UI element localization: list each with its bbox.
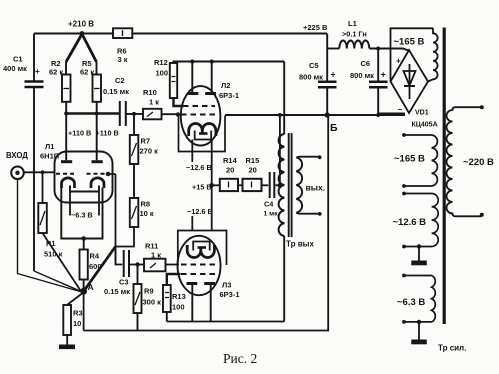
resistor R9 [134, 265, 162, 331]
svg-text:~220 В: ~220 В [463, 157, 494, 168]
resistor R5 [80, 59, 101, 102]
wire anode L2 to primary top [283, 62, 285, 135]
svg-text:R8: R8 [141, 200, 151, 209]
svg-text:R15: R15 [246, 156, 260, 165]
node B [325, 112, 338, 134]
svg-text:+: + [331, 70, 336, 80]
resistor R1 [38, 170, 62, 258]
svg-text:100: 100 [156, 69, 169, 78]
label +225 V [303, 23, 328, 32]
svg-text:1 к: 1 к [151, 251, 161, 260]
svg-text:VD1: VD1 [415, 110, 429, 117]
svg-text:62 к: 62 к [49, 68, 63, 77]
transformer winding 220V [447, 105, 495, 217]
resistor R3 [63, 294, 82, 336]
tube L3 6R3-1 envelope [178, 236, 240, 299]
wire bottom border [84, 115, 329, 331]
svg-text:3 к: 3 к [118, 55, 128, 64]
svg-text:400 мк: 400 мк [3, 64, 27, 73]
tube L3 cathode [187, 245, 214, 258]
svg-text:+225 В: +225 В [303, 23, 328, 32]
svg-text:>0.1 Гн: >0.1 Гн [342, 30, 367, 39]
wire node A to C3 [84, 247, 123, 292]
resistor R7 [130, 112, 158, 164]
wire L3 cathode to +15V node [211, 185, 213, 230]
tube L3 heater [193, 242, 210, 251]
resistor R6 [113, 28, 132, 64]
svg-text:−: − [398, 105, 403, 114]
wire anode rail L2 [174, 60, 285, 64]
svg-text:−12.6 В: −12.6 В [186, 163, 212, 172]
svg-text:+: + [396, 57, 401, 66]
tube L2 grid2 dashed [176, 112, 215, 116]
transformer winding 165V lower [394, 133, 437, 188]
tube L2 heater stub -12.6V [186, 140, 212, 173]
ground tap 6.3V [411, 320, 427, 345]
tube L3 anode pins [187, 284, 216, 322]
wire input shield to node A [18, 179, 81, 291]
svg-text:R14: R14 [223, 156, 238, 165]
node grid L1 right [106, 172, 116, 265]
resistor R15 [238, 156, 262, 191]
caption Ris 2 [223, 351, 257, 366]
tube L1 cathode right [91, 178, 104, 188]
svg-text:КЦ405А: КЦ405А [412, 122, 438, 129]
tube L2 6R3-1 envelope [181, 81, 239, 146]
transformer Tr vykh core [289, 133, 292, 237]
capacitor C5 [299, 34, 337, 116]
svg-text:Л1: Л1 [45, 142, 54, 151]
svg-text:~6.3 В: ~6.3 В [397, 297, 425, 308]
node A [80, 280, 93, 295]
transformer winding 165V upper [394, 28, 438, 81]
svg-text:R4: R4 [90, 252, 100, 261]
svg-text:Л3: Л3 [222, 281, 231, 290]
transformer winding 6.3V [397, 274, 435, 324]
resistor R4 [80, 239, 102, 280]
svg-text:~12.6 В: ~12.6 В [393, 217, 427, 228]
svg-text:Тр вых: Тр вых [286, 240, 314, 249]
tube L1 anode right [92, 114, 103, 162]
svg-text:+: + [35, 67, 40, 76]
svg-text:800 мк: 800 мк [299, 73, 323, 82]
label Tr vykh [286, 240, 314, 249]
svg-text:+210 В: +210 В [68, 20, 94, 29]
box rectifier winding [391, 28, 434, 81]
wire L1 cathode frame [61, 188, 102, 241]
resistor R11 [144, 242, 179, 272]
tube L3 grid2 dashed [181, 273, 215, 275]
rectifier VD1 bridge [378, 50, 428, 114]
svg-text:С4: С4 [264, 200, 274, 209]
svg-text:1 мк: 1 мк [264, 211, 279, 218]
transformer Tr sil core [443, 28, 446, 325]
resistor R14 [212, 156, 238, 191]
svg-text:0.15 мк: 0.15 мк [104, 287, 130, 296]
svg-text:6Н1П: 6Н1П [40, 152, 59, 161]
svg-text:+110 В: +110 В [96, 129, 119, 138]
transformer Tr vykh secondary [296, 155, 325, 215]
svg-text:270 к: 270 к [140, 147, 159, 156]
svg-text:ВХОД: ВХОД [6, 151, 28, 160]
box around L2 cathode [179, 116, 226, 152]
svg-text:вых.: вых. [306, 183, 326, 193]
diode inside VD1 [404, 64, 416, 99]
node +210 В [68, 20, 94, 36]
capacitor C2 [103, 76, 129, 126]
svg-text:R3: R3 [73, 309, 83, 318]
capacitor C6 [350, 47, 388, 118]
transformer winding 12.6V [393, 192, 439, 249]
wire +110V rail [64, 102, 119, 138]
svg-text:~165 В: ~165 В [394, 37, 425, 48]
resistor R13 [163, 274, 186, 322]
svg-text:Б: Б [330, 122, 338, 134]
resistor R12 [154, 58, 177, 98]
ground below R3 [59, 335, 75, 349]
svg-text:+15 В: +15 В [192, 183, 212, 192]
svg-text:С3: С3 [119, 278, 129, 287]
resistor R8 [130, 164, 154, 227]
svg-text:Л2: Л2 [221, 81, 230, 90]
wire top +210V rail [34, 33, 327, 35]
svg-text:800 мк: 800 мк [350, 71, 374, 80]
wire R12 to L2 grid1 [174, 98, 185, 106]
svg-text:R13: R13 [172, 292, 186, 301]
svg-text:100: 100 [172, 303, 185, 312]
wire R2 R5 feed triangle [66, 34, 97, 75]
svg-text:1 к: 1 к [149, 98, 159, 107]
svg-text:+110 В: +110 В [68, 129, 91, 138]
svg-text:~165 В: ~165 В [394, 154, 425, 165]
tube L1 grid dashed [56, 173, 110, 175]
wire C3 to R11 [130, 262, 145, 266]
label Tr sil [438, 344, 466, 353]
wire B rail [225, 113, 405, 117]
capacitor C1 [3, 34, 44, 272]
svg-text:+: + [381, 70, 386, 80]
svg-text:С6: С6 [361, 59, 371, 68]
svg-text:R12: R12 [154, 58, 168, 67]
svg-text:300 к: 300 к [143, 298, 162, 307]
input connector ВХОД [6, 151, 55, 179]
resistor R10 [126, 88, 178, 119]
svg-text:0.15 мк: 0.15 мк [103, 87, 129, 96]
transformer Tr vykh primary [279, 134, 285, 236]
inductor L1 [327, 19, 408, 51]
tube L2 heater [195, 131, 212, 140]
svg-text:−12.6 В: −12.6 В [187, 207, 213, 216]
svg-text:R11: R11 [145, 242, 158, 251]
tube L3 heater stub -12.6V [187, 207, 213, 231]
svg-text:R10: R10 [143, 88, 157, 97]
node primary center tap [278, 115, 285, 188]
svg-text:~6.3 В: ~6.3 В [71, 211, 93, 220]
wire node A to bottom border [83, 294, 85, 331]
tube L3 grid1 dashed [181, 264, 215, 266]
ground tap 12.6V [411, 244, 427, 265]
svg-text:6Р3-1: 6Р3-1 [219, 91, 239, 100]
label VD1 [412, 110, 438, 129]
tube L2 grid1 dashed [183, 105, 215, 107]
wire L2 cathode to +15V node [192, 140, 214, 192]
svg-text:6Р3-1: 6Р3-1 [220, 290, 240, 299]
svg-text:L1: L1 [348, 19, 357, 28]
tube L2 cathode [189, 124, 216, 137]
svg-text:С2: С2 [115, 76, 125, 85]
svg-text:R9: R9 [144, 287, 154, 296]
tube L1 cathode left [62, 178, 75, 188]
svg-text:R7: R7 [141, 137, 151, 146]
tube L1 anode left [61, 114, 72, 162]
svg-text:С1: С1 [13, 55, 23, 64]
svg-text:10: 10 [73, 319, 81, 328]
svg-text:С5: С5 [309, 61, 319, 70]
tube L2 anode pins [188, 62, 217, 94]
wire R1 to node A [43, 233, 82, 291]
svg-text:Тр сил.: Тр сил. [438, 344, 466, 353]
svg-text:20: 20 [249, 166, 257, 175]
capacitor C4 [262, 172, 280, 218]
box around L3 top [178, 231, 227, 266]
svg-text:20: 20 [226, 166, 234, 175]
op-amp tube L1 6N1P envelope [40, 142, 113, 203]
wire C1 return to node A [34, 271, 81, 291]
svg-text:62 к: 62 к [80, 68, 94, 77]
capacitor C3 [104, 250, 130, 296]
tube L1 heater [70, 186, 99, 220]
wire R8 to node A jog [116, 227, 135, 247]
wire primary bottom to L3 anodes [283, 236, 285, 322]
svg-text:10 к: 10 к [140, 209, 154, 218]
wire bottom cathode L3 [167, 321, 284, 323]
resistor R2 [49, 59, 71, 102]
svg-text:Рис. 2: Рис. 2 [223, 351, 257, 366]
